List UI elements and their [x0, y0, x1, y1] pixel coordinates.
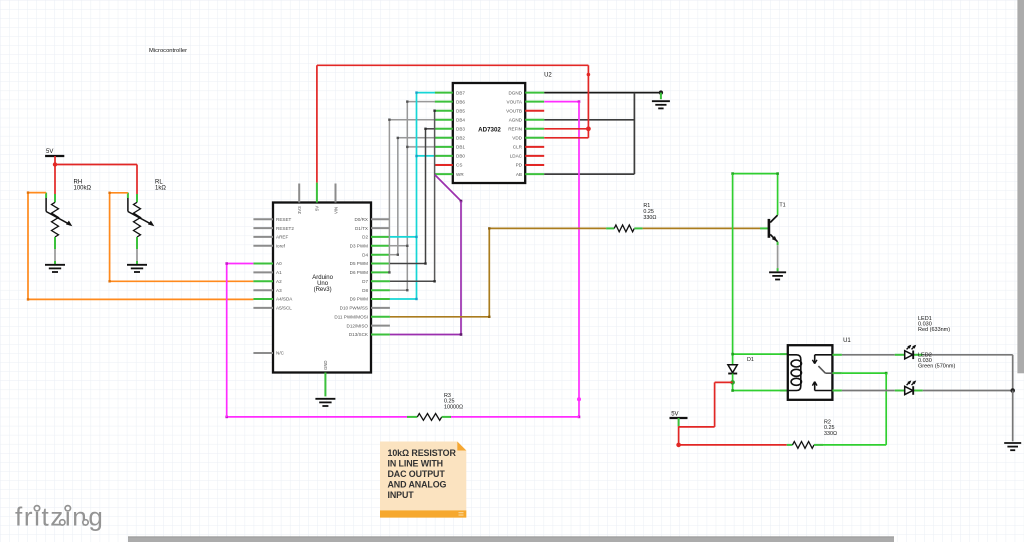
svg-text:D8: D8: [362, 288, 368, 293]
svg-text:Microcontroller: Microcontroller: [149, 48, 187, 54]
svg-text:GND: GND: [323, 360, 328, 370]
svg-text:100kΩ: 100kΩ: [74, 185, 92, 191]
svg-text:PD: PD: [516, 163, 523, 168]
svg-text:D3 PWM: D3 PWM: [350, 244, 369, 249]
svg-text:LDAC: LDAC: [510, 154, 523, 159]
svg-text:D11 PWM/MOSI: D11 PWM/MOSI: [334, 315, 368, 320]
svg-text:(Rev3): (Rev3): [314, 287, 332, 293]
svg-text:10kΩ RESISTOR: 10kΩ RESISTOR: [388, 448, 457, 458]
svg-text:DB6: DB6: [456, 99, 465, 104]
svg-text:330Ω: 330Ω: [643, 215, 656, 221]
svg-text:fritzing: fritzing: [15, 502, 104, 532]
svg-text:D0/RX: D0/RX: [354, 217, 368, 222]
svg-text:D4: D4: [362, 252, 368, 257]
svg-text:DB2: DB2: [456, 136, 465, 141]
svg-text:D10 PWM/SS: D10 PWM/SS: [340, 306, 368, 311]
svg-text:10000Ω: 10000Ω: [444, 404, 463, 410]
svg-text:330Ω: 330Ω: [824, 431, 837, 437]
svg-text:DB7: DB7: [456, 90, 465, 95]
svg-text:ioref: ioref: [276, 244, 286, 249]
svg-text:CS: CS: [456, 163, 462, 168]
svg-text:VIN: VIN: [333, 207, 338, 214]
svg-text:AGND: AGND: [509, 118, 523, 123]
svg-text:AD7302: AD7302: [478, 127, 501, 134]
svg-text:5V: 5V: [46, 149, 53, 155]
svg-text:AB: AB: [516, 172, 522, 177]
svg-text:DB0: DB0: [456, 154, 465, 159]
svg-text:N/C: N/C: [276, 351, 285, 356]
svg-text:REFIN: REFIN: [508, 127, 522, 132]
svg-text:AREF: AREF: [276, 235, 288, 240]
svg-text:DAC OUTPUT: DAC OUTPUT: [388, 469, 446, 479]
svg-text:A2: A2: [276, 279, 282, 284]
svg-text:Green (570nm): Green (570nm): [918, 364, 955, 370]
svg-text:5V: 5V: [315, 206, 320, 211]
svg-text:D5 PWM: D5 PWM: [350, 261, 369, 266]
svg-text:IN LINE WITH: IN LINE WITH: [388, 459, 444, 469]
svg-text:Red (633nm): Red (633nm): [918, 327, 950, 333]
svg-text:1kΩ: 1kΩ: [155, 185, 166, 191]
svg-text:U1: U1: [843, 338, 851, 344]
svg-text:VDD: VDD: [512, 136, 522, 141]
svg-text:DB5: DB5: [456, 108, 465, 113]
svg-text:D1/TX: D1/TX: [355, 226, 368, 231]
svg-text:RESET2: RESET2: [276, 226, 294, 231]
svg-text:D7: D7: [362, 279, 368, 284]
svg-text:DB4: DB4: [456, 118, 465, 123]
svg-text:A3: A3: [276, 288, 282, 293]
svg-text:D13/SCK: D13/SCK: [349, 332, 369, 337]
svg-text:CLR: CLR: [513, 145, 523, 150]
svg-text:D2: D2: [362, 235, 368, 240]
svg-text:A1: A1: [276, 270, 282, 275]
svg-text:D6 PWM: D6 PWM: [350, 270, 369, 275]
svg-text:D9 PWM: D9 PWM: [350, 297, 369, 302]
svg-text:DGND: DGND: [508, 90, 522, 95]
svg-text:A5/SCL: A5/SCL: [276, 306, 292, 311]
svg-text:RESET: RESET: [276, 217, 292, 222]
svg-text:A4/SDA: A4/SDA: [276, 297, 293, 302]
svg-text:VOUTA: VOUTA: [507, 99, 523, 104]
svg-text:AND ANALOG: AND ANALOG: [388, 480, 447, 490]
svg-text:WR: WR: [456, 172, 464, 177]
svg-text:T1: T1: [779, 203, 785, 209]
svg-text:D12/MISO: D12/MISO: [347, 323, 369, 328]
svg-text:A0: A0: [276, 261, 282, 266]
svg-text:DB1: DB1: [456, 145, 465, 150]
svg-text:INPUT: INPUT: [388, 490, 415, 500]
svg-text:VOUTB: VOUTB: [506, 108, 522, 113]
svg-text:3V3: 3V3: [297, 206, 302, 214]
svg-text:D1: D1: [747, 357, 754, 363]
svg-text:5V: 5V: [671, 411, 678, 417]
svg-text:DB3: DB3: [456, 127, 465, 132]
svg-text:U2: U2: [544, 72, 552, 78]
